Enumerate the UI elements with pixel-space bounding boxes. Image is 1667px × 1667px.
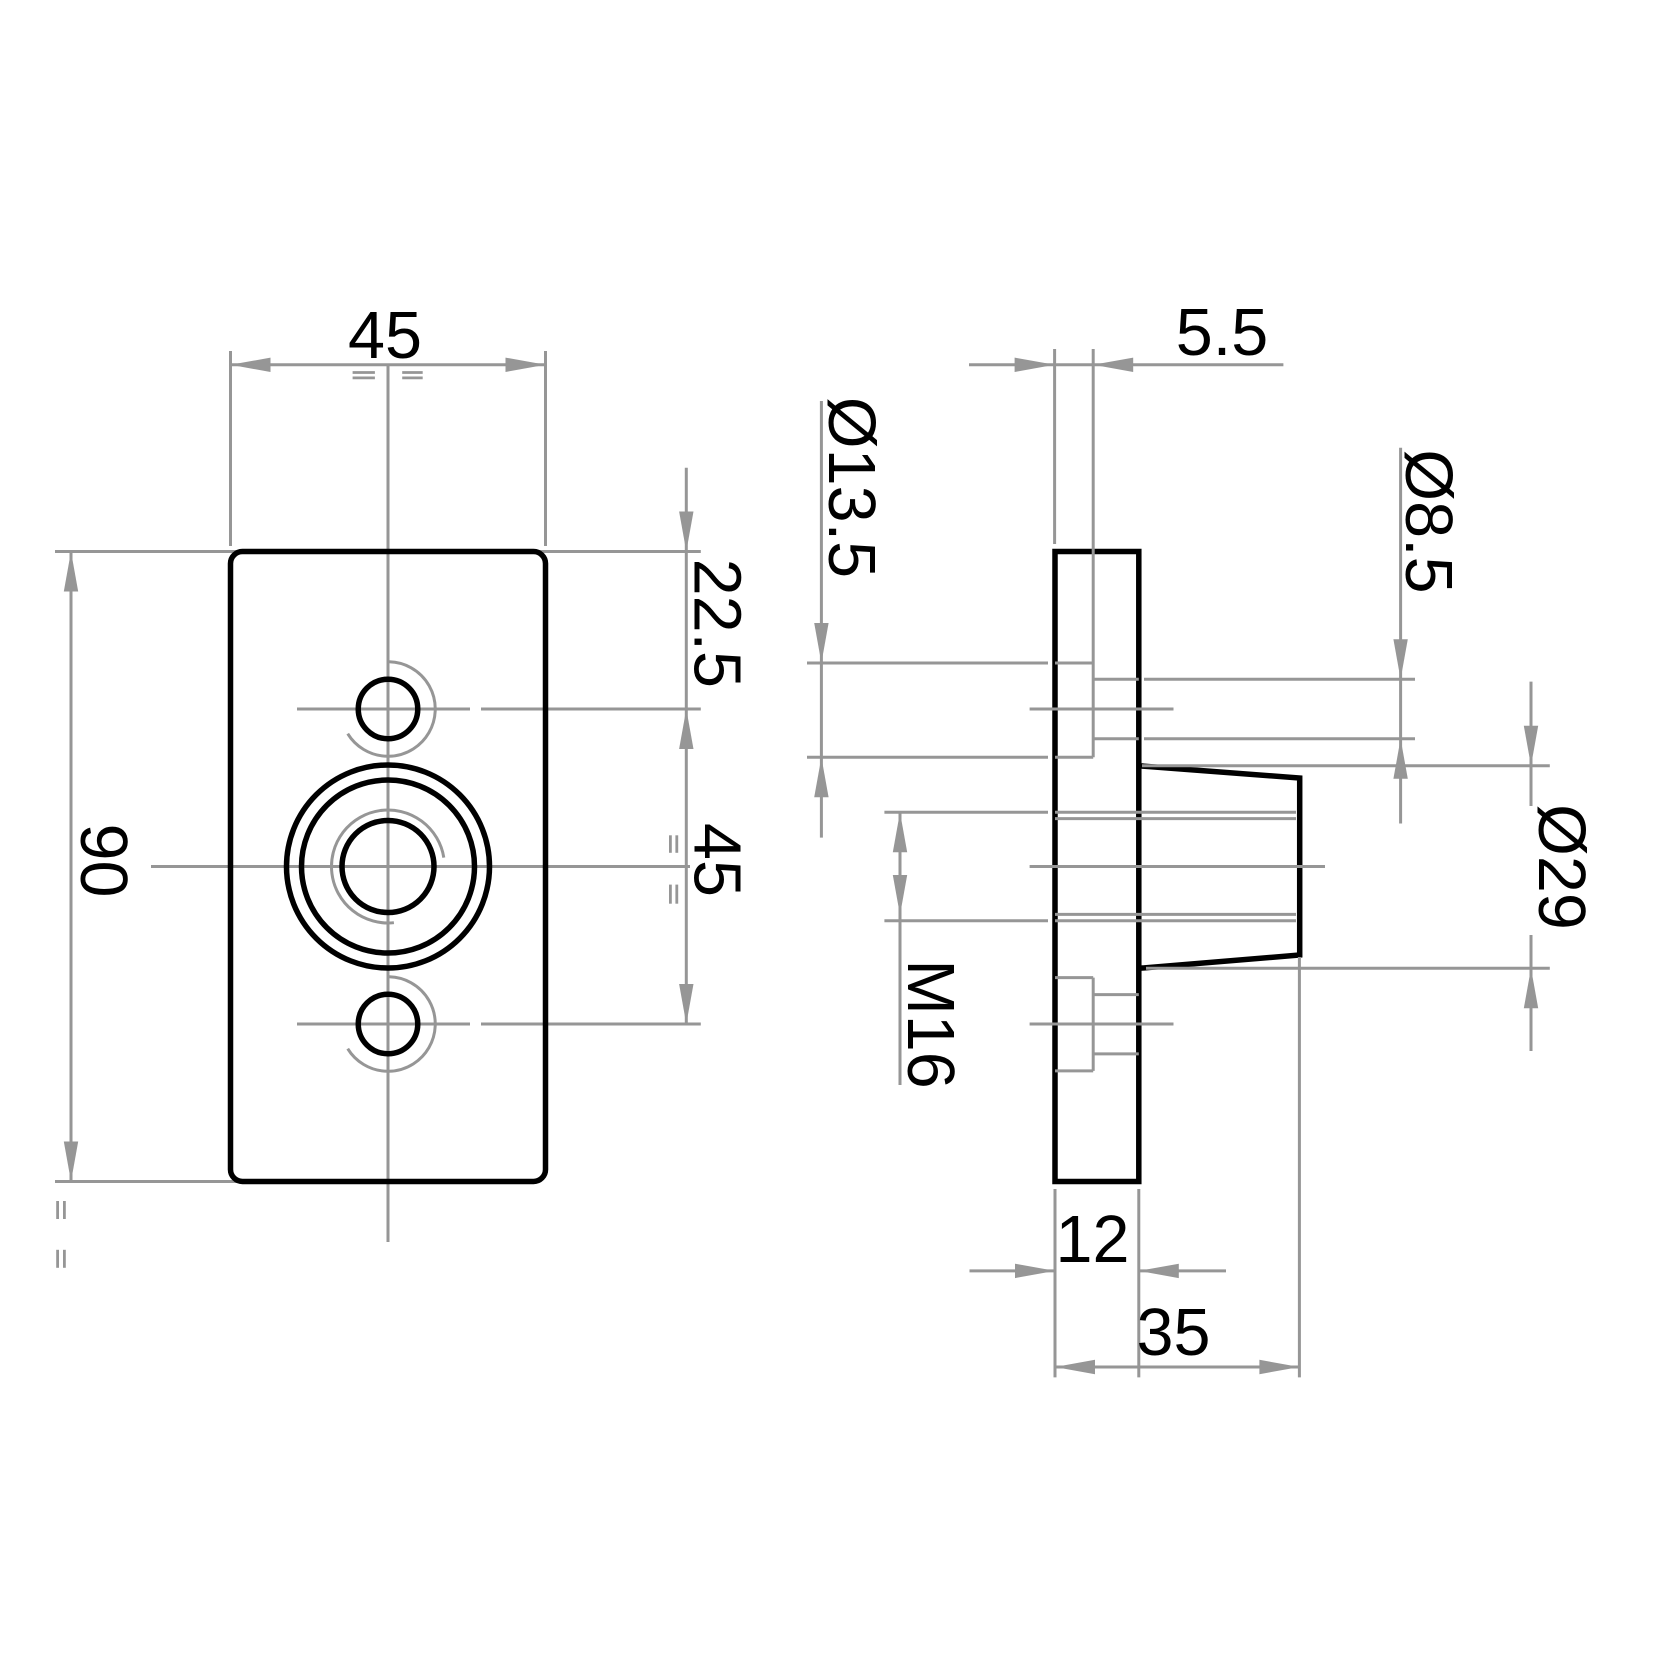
bottom hole centerline (side view) [1030,1023,1174,1026]
arrow 45 top left [231,358,271,372]
arrow Ø13.5 top (outside) [814,623,828,663]
arrow 22.5/45 at top hole center [679,709,693,749]
bottom counterbore depth line (side view) [1092,978,1095,1071]
svg-text:90: 90 [66,824,140,898]
arrow 90 top [64,552,78,592]
front view vertical centerline [387,365,390,1242]
M16 drill lower line (side view) [1055,913,1296,916]
bottom hole counterbore Ø13.5 arc [348,977,436,1071]
svg-text:12: 12 [1056,1203,1130,1277]
svg-text:M16: M16 [893,959,967,1088]
svg-text:5.5: 5.5 [1176,296,1268,370]
M16 tapped hole inner circle [342,821,434,913]
extension line: boss tip (35 dim) [1298,957,1301,1377]
extension line: top edge of plate (shared by 90 and 22.5 dims) [55,550,701,553]
M16 drill upper line (side view) [1055,817,1296,820]
M16 thread major lower line (side view) [1055,919,1296,922]
svg-text:45: 45 [680,823,754,897]
extension line M16 bottom [884,919,1048,922]
svg-text:Ø29: Ø29 [1524,804,1598,930]
top hole centerline (side view) [1030,708,1174,711]
arrow Ø29 bottom (outside) [1524,968,1538,1008]
arrow M16 top [893,812,907,852]
extension line: counterbore depth (5.5 dim) [1092,349,1095,663]
extension line Ø29 top [1142,764,1550,767]
front view horizontal centerline [151,865,690,868]
top counterbore top edge (side view) [1055,662,1093,665]
dimension line 45 top [231,363,546,366]
top counterbore bottom edge (side view) [1055,756,1093,759]
top hole centerline extension to 22.5/45 dims [481,708,701,711]
M16 thread major diameter arc [331,810,443,923]
dimension line 12 right segment [1139,1269,1226,1272]
bottom hole Ø8.5 lower line (side view) [1093,1052,1139,1055]
top hole horizontal centerline (left segment) [297,708,470,711]
svg-text:35: 35 [1137,1296,1211,1370]
bottom hole Ø8.5 upper line (side view) [1093,993,1139,996]
arrow Ø13.5 bottom (outside) [814,757,828,797]
bottom counterbore bottom edge (side view) [1055,1069,1093,1072]
svg-text:Ø8.5: Ø8.5 [1391,449,1465,593]
extension line Ø8.5 bottom [1144,737,1415,740]
equality mark || [56,1250,59,1268]
dimension line 90 left [70,552,73,1182]
arrow 90 bottom [64,1142,78,1182]
front view: plate outline 45x90 rounded rect [231,552,546,1182]
extension line: plate front face (12 dim) [1137,1189,1140,1377]
arrow 12 left (outside) [1015,1264,1055,1278]
equality mark || [669,885,672,904]
dimension line Ø13.5 [820,401,823,838]
extension line: plate left edge (45 top dim) [229,351,232,546]
extension line: plate back face (5.5 dim) [1053,349,1056,544]
extension line Ø13.5 bottom [807,756,1048,759]
dimension line Ø8.5 [1399,448,1402,824]
side view: plate profile 12mm thick [1055,552,1139,1182]
equality mark || [56,1201,59,1219]
bottom mounting hole Ø8.5 [358,994,418,1054]
equality mark || [669,835,672,853]
dimension line Ø29 upper segment [1530,682,1533,806]
arrow M16 bottom [893,875,907,915]
extension line Ø13.5 top [807,662,1048,665]
extension line M16 top [884,811,1048,814]
top hole Ø8.5 upper line (side view) [1093,678,1139,681]
extension line: plate right edge (45 top dim) [544,351,547,546]
side view horizontal centerline [1030,865,1325,868]
top hole Ø8.5 lower line (side view) [1093,737,1139,740]
top hole counterbore Ø13.5 arc [348,662,436,756]
arrow Ø8.5 bottom (outside) [1393,739,1407,779]
central boss chamfer circle [302,780,475,953]
arrow 45 at bottom hole center [679,984,693,1024]
arrow 45 top right [506,358,546,372]
svg-text:45: 45 [348,299,422,373]
M16 thread major upper line (side view) [1055,811,1296,814]
bottom hole horizontal centerline (left segment) [297,1023,470,1026]
arrow 5.5 right (outside) [1093,358,1133,372]
dimension line 5.5 [969,363,1283,366]
bottom hole centerline extension to 45 dim [481,1023,701,1026]
svg-text:Ø13.5: Ø13.5 [814,397,888,578]
extension line: bottom edge of plate (90 dim) [55,1180,533,1183]
dimension line M16 [899,812,902,1085]
dimension line Ø29 lower segment [1530,935,1533,1051]
central boss outer circle Ø29 [287,765,490,968]
arrow 35 left [1055,1360,1095,1374]
top mounting hole Ø8.5 [358,679,418,739]
extension line Ø8.5 top [1144,678,1415,681]
equality mark = [353,371,375,374]
arrow 5.5 left (outside) [1015,358,1055,372]
top counterbore depth line (side view) [1092,663,1095,757]
arrow Ø29 top (outside) [1524,726,1538,766]
extension line Ø29 bottom [1146,967,1550,970]
side view: tapered boss profile [1139,766,1300,969]
bottom counterbore top edge (side view) [1055,976,1093,979]
arrow 22.5 top (outside) [679,512,693,552]
arrow 35 right [1259,1360,1299,1374]
dimension line 22.5 and 45 right [685,468,688,1024]
extension line: plate back face (12/35 dims) [1054,1189,1057,1377]
svg-text:22.5: 22.5 [680,559,754,688]
arrow Ø8.5 top (outside) [1393,639,1407,679]
equality mark = [402,371,423,374]
dimension line 12 left segment [970,1269,1056,1272]
dimension line 35 [1055,1366,1299,1369]
arrow 12 right (outside) [1139,1264,1179,1278]
